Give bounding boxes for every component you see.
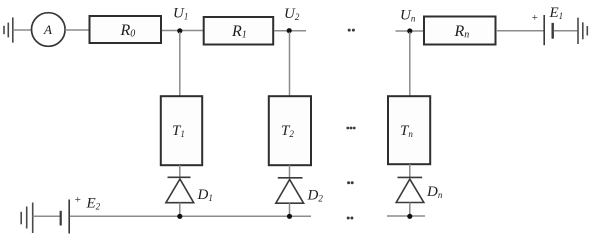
svg-text:Dn: Dn (426, 184, 443, 200)
wire Rn to E1 (496, 30, 544, 32)
node U2 (284, 6, 300, 33)
ground (left, at ammeter input) (4, 17, 13, 42)
wire Dn to bus segment (409, 203, 411, 217)
dots (diode row continuation) (347, 181, 354, 184)
wire bottom bus (70, 215, 311, 217)
resistor R0 (90, 16, 162, 43)
wire E1 to ground (554, 30, 578, 32)
wire U2 to T2 (289, 32, 291, 97)
wire R1 to U2 (274, 30, 306, 32)
battery E1 (531, 5, 563, 45)
svg-text:D1: D1 (197, 187, 213, 203)
transistor Tn (388, 96, 430, 164)
svg-text:U2: U2 (284, 6, 300, 22)
diode D2 (276, 178, 324, 204)
wire ground to ammeter (13, 29, 32, 31)
wire R0 to R1 (162, 30, 203, 32)
svg-text:E2: E2 (86, 196, 101, 212)
diode D1 (166, 177, 213, 203)
wire Tn to Dn (409, 164, 411, 177)
svg-text:+: + (531, 12, 538, 24)
node U1 (173, 6, 188, 34)
svg-text:E1: E1 (549, 5, 564, 21)
ground (left, E2) (21, 203, 33, 234)
wire D2 to bus (289, 203, 291, 216)
wire into Un (396, 30, 425, 32)
diode Dn (396, 177, 443, 202)
dots (T row continuation) (346, 127, 355, 130)
svg-text:Un: Un (400, 8, 416, 24)
wire bus segment under Dn (387, 215, 425, 217)
junction Dn-bus (407, 214, 412, 219)
wire D1 to bus (179, 203, 181, 216)
battery E2 (61, 194, 101, 234)
junction D1-bus (177, 214, 182, 219)
wire ammeter to R0 (65, 29, 88, 31)
dots (top wire continuation) (348, 29, 355, 32)
resistor R1 (204, 17, 274, 45)
ground (right, E1) (578, 18, 587, 44)
node Un (400, 8, 416, 34)
resistor Rn (424, 17, 496, 45)
wire ground to E2 (33, 215, 60, 217)
ammeter A (32, 13, 66, 47)
junction D2-bus (287, 214, 292, 219)
wire Un to Tn (409, 32, 411, 97)
svg-text:A: A (43, 22, 52, 37)
dots (bus continuation) (347, 217, 354, 220)
wire T1 to D1 (179, 165, 181, 177)
svg-text:U1: U1 (173, 6, 188, 22)
wire T2 to D2 (289, 165, 291, 177)
transistor T2 (269, 96, 311, 165)
svg-text:D2: D2 (307, 188, 324, 204)
transistor T1 (161, 96, 202, 165)
wire U1 to T1 (179, 32, 181, 97)
svg-text:+: + (74, 194, 81, 206)
